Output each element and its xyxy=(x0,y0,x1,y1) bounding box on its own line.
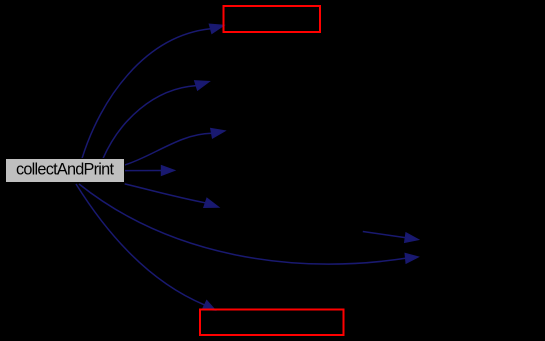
edge collectAndPrint -> node4 (curve) xyxy=(125,133,212,165)
edge collectAndPrint -> node5 (horizontal) xyxy=(125,170,162,172)
arrowhead of edge to top red node xyxy=(209,24,224,34)
node collectAndPrint (grey box) xyxy=(6,159,125,183)
edge collectAndPrint -> node3 (curve) xyxy=(103,86,196,159)
arrowhead of edge to bottom red node xyxy=(202,300,215,310)
arrowhead of edge to node6 xyxy=(204,198,219,207)
edge collectAndPrint -> far right node (long sweeping curve) xyxy=(79,184,406,264)
edge collectAndPrint -> node6 (down-right) xyxy=(125,184,206,203)
arrowhead of long sweeping edge xyxy=(405,253,419,263)
edge collectAndPrint -> top red node (curve) xyxy=(82,29,211,159)
arrowhead of edge to node3 xyxy=(195,81,210,91)
arrowhead of horizontal edge xyxy=(161,166,175,176)
edge hidden node -> far right node (short arrow) xyxy=(363,232,405,238)
arrowhead of edge to node4 xyxy=(211,128,226,138)
arrowhead of short edge xyxy=(405,233,419,243)
svg-text:collectAndPrint: collectAndPrint xyxy=(16,161,114,179)
node bottom red box xyxy=(200,310,344,336)
node top red box xyxy=(224,6,321,32)
edge collectAndPrint -> bottom red node (curve) xyxy=(76,184,205,305)
